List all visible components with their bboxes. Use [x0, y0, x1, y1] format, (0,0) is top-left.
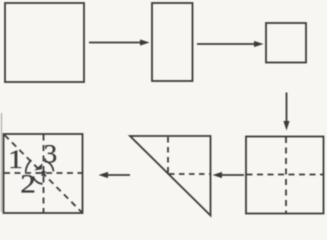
scan artifact left edge [1, 113, 3, 212]
arrow 1 (square A to rectangle B) [89, 39, 150, 45]
diagonal crease (dashed) [5, 135, 82, 212]
square A (large unfolded paper, top-left) [5, 3, 84, 82]
arrow 5 (left, triangle to square E) [99, 172, 131, 178]
vertical crease (dashed) [43, 135, 45, 213]
vertical crease (dashed) [285, 137, 287, 213]
square E (bottom-left, final figure with numbered flaps) [4, 134, 83, 213]
svg-text:2: 2 [20, 170, 36, 199]
rotation arc (W to S) [33, 176, 42, 184]
horizontal crease (dashed) [247, 174, 324, 176]
arrow 3 (down, square C to square D) [283, 93, 289, 131]
svg-text:3: 3 [43, 139, 57, 168]
horizontal crease (dashed) [4, 172, 82, 174]
vertical crease (dashed) [167, 137, 169, 173]
square D (bottom-right, with crease cross) [246, 137, 324, 214]
centre star [42, 171, 46, 177]
square C (paper folded in quarters) [266, 23, 306, 63]
rotation arc arrowhead (NW, pointing SW) [34, 163, 42, 170]
arrow 2 (rectangle B to small square C) [197, 41, 264, 47]
arrow 4 (left, square D to triangle) [213, 172, 245, 178]
horizontal crease (dashed) [169, 173, 210, 175]
angle arc near flap 1 [26, 160, 32, 172]
rotation arc around centre (E to N) [45, 161, 54, 171]
rectangle B (paper folded in half) [152, 3, 193, 81]
triangle (paper folded along diagonal) [130, 136, 211, 216]
